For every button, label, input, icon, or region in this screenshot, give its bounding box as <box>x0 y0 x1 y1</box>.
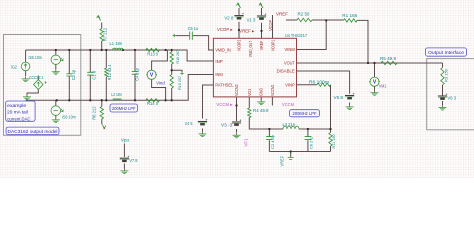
svg-text:L3 21n: L3 21n <box>283 122 296 127</box>
svg-text:L1 18n: L1 18n <box>110 41 123 46</box>
svg-text:Vind: Vind <box>156 80 165 85</box>
wire CCCS2 ground lead <box>27 90 38 95</box>
svg-text:Output Interface: Output Interface <box>428 50 465 55</box>
resistor R5 <box>381 61 397 64</box>
svg-text:R10 267: R10 267 <box>175 49 180 63</box>
svg-text:VF1: VF1 <box>244 138 249 147</box>
wire IG2 branch <box>26 50 39 80</box>
current source IG2 <box>21 62 30 71</box>
wire VM1 tap <box>374 63 376 77</box>
capacitor C1 <box>87 72 93 75</box>
junction C2 top <box>268 128 270 130</box>
svg-text:VMID_IN: VMID_IN <box>215 48 230 53</box>
inductor L3 <box>283 126 299 129</box>
wire VM1 ground lead <box>374 86 376 90</box>
junction VM1 tap <box>373 62 375 64</box>
wire R10 mid tap <box>172 70 182 72</box>
svg-text:IS6 10m: IS6 10m <box>62 114 76 119</box>
junction IS5 <box>55 49 57 51</box>
resistor R13 <box>146 48 160 51</box>
node VREF flag <box>288 158 294 160</box>
ground CCCS2 <box>26 95 28 97</box>
svg-text:R11 150: R11 150 <box>331 134 336 149</box>
junction R11 top <box>329 128 331 130</box>
svg-text:R14 0: R14 0 <box>147 101 159 106</box>
wire V1 to VREF pin <box>261 8 263 38</box>
capacitor C2 <box>266 137 273 140</box>
svg-text:R12 63.4: R12 63.4 <box>107 64 112 80</box>
svg-text:C5 1u: C5 1u <box>188 26 199 31</box>
wire R11 leads <box>330 129 332 152</box>
battery V5 <box>345 95 354 97</box>
wire R6 to LPF node <box>330 85 332 129</box>
svg-text:IS5 10m: IS5 10m <box>29 55 43 60</box>
junction R8 top <box>101 99 103 101</box>
svg-text:V4 5: V4 5 <box>185 121 193 126</box>
wire VCCM1 stub <box>271 97 273 106</box>
resistor R8 <box>100 106 103 119</box>
wire R4 to L3 line <box>249 118 283 130</box>
wire GND pin stub <box>260 97 262 100</box>
wire C1 leads <box>89 50 91 100</box>
junction R10 mid <box>171 69 173 71</box>
svg-text:VINP: VINP <box>285 82 295 87</box>
svg-text:VCCM1: VCCM1 <box>270 84 275 96</box>
ground IS6 <box>55 118 57 120</box>
svg-text:R5 49.9: R5 49.9 <box>380 56 397 61</box>
voltmeter VM1 <box>370 77 379 86</box>
wire VREF to R2 <box>286 19 297 21</box>
junction R7 <box>101 49 103 51</box>
svg-text:VCOP ▸: VCOP ▸ <box>217 27 233 32</box>
wire top rail INP <box>26 50 214 61</box>
svg-text:V6 3: V6 3 <box>448 96 457 101</box>
ground V7 <box>123 169 125 171</box>
wire IS6 leads <box>55 100 57 117</box>
ground V6 <box>442 105 444 107</box>
ground GND pin <box>260 100 262 102</box>
ground IS5 <box>55 69 57 71</box>
wire VOUT bus <box>297 62 443 64</box>
inductor L1 <box>113 48 123 50</box>
svg-text:R13 0: R13 0 <box>147 52 158 57</box>
svg-text:V2 8: V2 8 <box>224 15 234 20</box>
svg-text:R3 150: R3 150 <box>444 68 449 82</box>
power flag R8 down <box>102 124 106 129</box>
battery V1 <box>257 15 266 17</box>
blue box example DAC <box>6 101 35 121</box>
current source IS6 <box>51 106 61 116</box>
resistor R3 <box>441 68 444 86</box>
svg-text:R1 165: R1 165 <box>342 13 358 18</box>
svg-text:VM1: VM1 <box>379 84 387 89</box>
svg-text:VCCM: VCCM <box>282 102 294 107</box>
op-amp U4 THS3217 body <box>213 38 296 97</box>
junction C6 top <box>307 128 309 130</box>
junction R1 drop <box>367 62 369 64</box>
junction VREF label <box>260 30 262 32</box>
wire V4 battery tail <box>202 129 204 132</box>
svg-text:PATHSEL: PATHSEL <box>215 83 234 88</box>
svg-text:VO1: VO1 <box>247 88 252 95</box>
resistor R10 <box>170 52 173 64</box>
wire V3 battery tail <box>236 129 238 133</box>
svg-text:example: example <box>7 103 27 108</box>
wire R1 to output node <box>357 20 368 63</box>
wire VCCM2 to V3 <box>236 97 238 121</box>
wire VREF rail <box>269 151 330 153</box>
wire V2 to VCOP2 pin <box>238 8 240 38</box>
resistor R12 <box>105 68 108 77</box>
wire C3 leads <box>68 50 70 100</box>
capacitor C6 <box>305 137 312 140</box>
grid background <box>0 0 474 178</box>
svg-text:20 mA tail: 20 mA tail <box>7 110 28 115</box>
capacitor C5 <box>190 32 193 40</box>
wire V7 tail <box>123 164 125 169</box>
wire C6 leads <box>307 129 309 152</box>
svg-text:DAC3162 output model: DAC3162 output model <box>8 129 58 134</box>
blue box 200MHz LPF 2 <box>290 110 320 117</box>
DAC model section box <box>4 35 81 136</box>
junction R10 top <box>171 49 173 51</box>
wire R2 to R1 node <box>312 19 344 21</box>
junction R12 top <box>105 49 107 51</box>
svg-text:R7 212: R7 212 <box>102 27 107 41</box>
resistor R7 <box>100 29 103 42</box>
svg-text:V1 3: V1 3 <box>247 18 256 23</box>
wire PATHSEL to V4 <box>203 85 214 119</box>
wire bottom rail INM <box>26 75 214 101</box>
wire Vind bottom <box>152 79 166 100</box>
svg-text:current DAC: current DAC <box>7 116 31 121</box>
svg-text:R2 50: R2 50 <box>298 11 311 16</box>
wire R10 chain <box>171 50 173 100</box>
svg-text:V5 8: V5 8 <box>334 95 344 100</box>
wire IS5 leads <box>55 50 57 69</box>
ground VM1 <box>374 90 376 92</box>
svg-text:VCOP2: VCOP2 <box>236 39 241 51</box>
junction R15 bottom <box>171 99 173 101</box>
wire DISABLE to V5 <box>297 71 350 94</box>
resistor R4 <box>248 108 251 118</box>
wire VO1 to R4 <box>248 97 250 108</box>
svg-text:CCCS2 1: CCCS2 1 <box>29 75 44 80</box>
svg-text:VCCM2: VCCM2 <box>234 84 239 96</box>
svg-text:VINM: VINM <box>285 47 296 52</box>
svg-text:R6 100m: R6 100m <box>309 79 329 84</box>
svg-text:Vpu: Vpu <box>121 137 130 142</box>
svg-text:IG2: IG2 <box>11 65 18 70</box>
wire R7 vertical <box>101 23 103 51</box>
svg-text:VREF: VREF <box>259 40 264 50</box>
resistor R1 <box>344 19 358 22</box>
svg-text:L2 18n: L2 18n <box>111 92 122 97</box>
resistor R14 <box>146 99 160 102</box>
junction VREF flag <box>290 150 292 152</box>
node mid tap cross <box>180 72 183 75</box>
svg-text:R4 49.9: R4 49.9 <box>253 108 269 113</box>
junction C4 bottom <box>134 99 136 101</box>
svg-text:VOUT: VOUT <box>284 61 295 66</box>
current source IS5 <box>51 55 60 64</box>
ground V4 <box>202 132 204 134</box>
svg-text:VCOP1: VCOP1 <box>270 39 275 51</box>
svg-text:DISABLE: DISABLE <box>277 69 295 74</box>
inductor L2 <box>113 99 121 101</box>
svg-text:GND: GND <box>259 88 264 96</box>
wire C2 leads <box>268 129 270 152</box>
wire VREF flag stub <box>290 152 292 158</box>
junction R2 R1 node <box>325 19 327 21</box>
junction C1 bottom <box>89 99 91 101</box>
ground V3 <box>236 133 238 135</box>
svg-text:INM: INM <box>215 72 223 77</box>
svg-text:VREF ▸: VREF ▸ <box>239 29 254 34</box>
resistor R15 <box>170 75 173 89</box>
junction Vind riser <box>164 99 166 101</box>
power flag R7 <box>97 16 101 21</box>
wire V5 battery tail <box>349 103 351 105</box>
junction IS6 <box>56 99 58 101</box>
svg-text:C1 0: C1 0 <box>91 70 96 80</box>
junction C3 bottom <box>68 99 70 101</box>
svg-text:C6 27p: C6 27p <box>308 136 313 149</box>
ground V5 <box>349 105 351 107</box>
wire VCOP1 pin stub <box>272 15 274 38</box>
svg-text:VREF: VREF <box>276 11 288 16</box>
wire L3 line right <box>299 128 331 130</box>
wire R8 leads <box>101 100 103 124</box>
junction VCCM label <box>235 104 237 106</box>
resistor R11 <box>329 133 332 147</box>
wire Vpu to V7 <box>123 144 125 158</box>
power flag V1 <box>259 3 263 8</box>
svg-text:C3 1p: C3 1p <box>71 69 76 80</box>
wire Vind top <box>152 50 168 70</box>
blue box Output Interface <box>426 48 467 56</box>
svg-text:C2 4.3p: C2 4.3p <box>270 134 275 149</box>
resistor R6 <box>317 83 331 86</box>
wire load branch <box>442 63 444 96</box>
wire V6 battery tail <box>442 101 444 105</box>
junction C4 top <box>134 49 136 51</box>
wire R12 leads <box>105 50 107 100</box>
svg-text:V7 8: V7 8 <box>129 158 138 163</box>
battery V3 <box>232 121 241 123</box>
battery V6 <box>438 95 447 97</box>
svg-text:C4 21p: C4 21p <box>134 68 139 81</box>
wire VINP to R6 <box>297 84 318 86</box>
svg-text:V3 -3: V3 -3 <box>221 123 233 128</box>
junction R13 right <box>164 49 166 51</box>
svg-text:R8 212: R8 212 <box>92 106 97 120</box>
battery V2 <box>234 15 243 17</box>
svg-text:VREF: VREF <box>279 156 284 167</box>
node C5 plus <box>173 34 176 37</box>
Output Interface section box <box>427 59 474 130</box>
cccs CCCS2 <box>34 80 43 90</box>
battery V4 <box>198 121 207 123</box>
svg-text:U4 THS3217: U4 THS3217 <box>285 33 308 38</box>
svg-text:200MHz LPF: 200MHz LPF <box>293 111 317 116</box>
voltmeter Vind <box>147 70 156 79</box>
wire VINM feedback <box>297 20 327 49</box>
blue box 200MHz LPF 1 <box>110 104 138 112</box>
junction R12 bottom <box>105 99 107 101</box>
capacitor C4 <box>132 71 139 74</box>
svg-text:VCCM ▸: VCCM ▸ <box>216 102 232 107</box>
capacitor C3 <box>67 74 73 76</box>
wire C5 input <box>176 36 214 50</box>
svg-text:VCOP: VCOP <box>268 20 273 31</box>
power flag V2 <box>237 3 241 8</box>
resistor R2 <box>297 18 312 21</box>
junction C1 top <box>89 49 91 51</box>
svg-text:INP: INP <box>215 59 222 64</box>
svg-text:R15 267: R15 267 <box>177 75 182 90</box>
svg-text:200MHz LPF: 200MHz LPF <box>112 106 136 111</box>
junction L1 right <box>122 49 124 51</box>
junction C3 top <box>68 49 70 51</box>
battery V7 <box>120 157 129 159</box>
wire C4 leads <box>134 50 136 100</box>
svg-text:VMID_OUT: VMID_OUT <box>248 41 253 58</box>
blue box DAC3162 output model <box>6 127 59 135</box>
junction VCOP label <box>238 29 240 31</box>
